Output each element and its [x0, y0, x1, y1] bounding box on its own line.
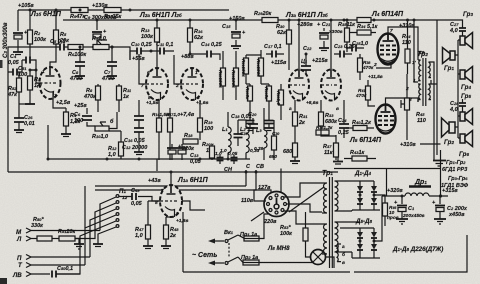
label 127в [258, 185, 271, 191]
capacitor C9 300x300в electrolytic [84, 15, 117, 50]
capacitor C3 300x300в electrolytic [13, 10, 28, 52]
resistor R46 10 пров [383, 203, 399, 226]
wire transformer to bridge2 [340, 222, 360, 258]
label Д5-Д8 [355, 218, 373, 225]
ground speaker bus [433, 161, 446, 167]
capacitor C29 [240, 118, 255, 137]
capacitor C26 0,01 [14, 100, 35, 130]
capacitor C6 100 [74, 108, 95, 126]
wire bridge2 output [374, 196, 382, 241]
resistor R53 100к [280, 212, 311, 257]
resistor R40 1,2к [346, 120, 374, 131]
ground after R51 [74, 244, 84, 249]
resistor R24 150к [255, 50, 264, 84]
label tube Л1б 6Н1П [30, 11, 62, 18]
resistor R23 180к vertical tall [230, 51, 239, 100]
switch link dashed [228, 243, 230, 258]
capacitor C13б 0,05 electrolytic [167, 144, 202, 165]
node rail dots [47, 9, 376, 174]
capacitor C1 200х450в [394, 196, 425, 224]
input jack Т [18, 262, 85, 269]
label С [246, 164, 251, 170]
resistor R6 100к [68, 45, 93, 59]
resistor R1 1,0 [28, 69, 42, 105]
capacitor C28 4,0 [449, 99, 466, 113]
choke Др1 [405, 179, 431, 196]
capacitor C16 0,05 [124, 100, 146, 144]
capacitor C5 0,1 [50, 39, 68, 51]
wire Л5 anode to Тр2 bottom [386, 98, 419, 105]
resistor R48 2к [161, 217, 179, 249]
wire choke out [429, 188, 458, 198]
resistor R38 470к [358, 54, 375, 80]
lamp Л8 МН8 [267, 245, 334, 268]
voltage selector [264, 192, 289, 217]
label Д1-Д8 Д226(Д7Ж) [392, 246, 443, 253]
label tube Л2а 6Н1П Л2б [139, 12, 182, 19]
capacitor C17 0,1 [264, 44, 284, 58]
label +55в [132, 56, 145, 62]
label +150в [229, 16, 245, 22]
capacitor C2 200х450в [432, 196, 468, 224]
wire П1 to ЛВ row [56, 221, 116, 274]
label 220в [263, 219, 277, 225]
resistor R20 10к [202, 142, 216, 160]
resistor R2 100к [28, 28, 48, 58]
resistor R44 110 [402, 19, 411, 75]
label Гр6 [459, 151, 469, 158]
wire anode Л1б to rail [50, 52, 56, 67]
resistor R28 1,0 [275, 84, 284, 120]
ground under C3 [13, 52, 23, 55]
capacitor C14 0,25 [190, 42, 223, 60]
wire speakers inner bus [455, 40, 460, 138]
resistor R30 62к [276, 19, 292, 71]
resistor R35 11к [338, 19, 356, 53]
label tube Л5 6П14П [349, 137, 382, 144]
label +7,4в [180, 112, 195, 118]
resistor R51 20к [58, 229, 79, 244]
input jack ЛВ [12, 272, 50, 280]
resistor R19 100 [198, 100, 214, 140]
capacitor C21 electrolytic [317, 22, 343, 51]
wire anodes Л3 to rail [298, 19, 333, 70]
wire bridge1 output [374, 188, 403, 203]
wire Л4 anode to Тр2 [388, 27, 418, 60]
speaker Гр1 [443, 48, 456, 73]
capacitor C7 4700 [101, 46, 117, 83]
resistor R9 47к [70, 8, 88, 21]
resistor R8 470к [83, 84, 101, 112]
capacitor C18 0,01 [231, 114, 252, 146]
wire top rail B (+310v) [63, 19, 437, 21]
wire bridge1 plus to choke [382, 195, 405, 198]
switch Вк1 pole 1 [208, 230, 244, 244]
label Гр5 [461, 93, 471, 100]
wire grid Л2а [139, 54, 146, 84]
wire cathode Л1б down [53, 92, 71, 108]
ground under C26 R1 [14, 104, 35, 133]
wire selector to Тр1 top [283, 183, 322, 197]
label +25в [74, 103, 87, 109]
resistor R34 5,1к [350, 24, 379, 35]
resistor R50 330к [31, 217, 59, 241]
capacitor C27 4,0 [449, 22, 466, 36]
wire band switch feedback 1 [95, 170, 246, 186]
resistor R47 1,0 [135, 201, 160, 249]
label +310в feed [400, 142, 416, 148]
capacitor C22 [301, 46, 312, 74]
resistor R29 20к [254, 11, 278, 23]
wire B+ down right [420, 144, 441, 196]
capacitor C12 20000 [122, 126, 147, 155]
wire П1 to П row [90, 209, 116, 257]
capacitor C4 0,05 [8, 54, 38, 72]
label +115в [271, 60, 287, 66]
label +130в [92, 3, 108, 9]
wire PSU bottom rail [243, 235, 467, 272]
label tube Л4 6П14П [371, 11, 404, 18]
resistor R16 62к [188, 19, 205, 55]
label +43в [148, 178, 161, 184]
resistor R27 680 [269, 120, 277, 160]
label Гр1-Гр2 6ГД1 РР3 [442, 160, 467, 173]
fuse Пр1а [240, 214, 268, 241]
resistor R41 470к [355, 80, 375, 106]
label СВ [256, 164, 264, 170]
capacitor band filter 0,05 [228, 151, 238, 164]
speaker Гр5 [460, 109, 473, 125]
capacitor C12б electrolytic [177, 144, 187, 160]
wire selector arm diagonal [251, 169, 324, 222]
wire selector tap 127в [254, 190, 271, 201]
wire feedback left loop [8, 47, 56, 172]
wire grid Л2б [174, 55, 181, 84]
capacitor C10 0,25 [130, 42, 153, 60]
tube Л4 pentode [373, 28, 399, 68]
switch П1 contacts [116, 188, 128, 227]
label 110в [241, 198, 254, 204]
label Гр3 [463, 11, 473, 18]
wire rail to Тр2 centre tap [413, 19, 419, 83]
capacitor C30 [265, 118, 280, 137]
speaker Гр3 [460, 33, 473, 49]
resistor R21 150к [240, 55, 249, 84]
wire left return [183, 212, 243, 272]
wire pole vertical [84, 186, 86, 228]
label +1,8в [176, 218, 188, 224]
resistor R31 2к [293, 100, 309, 140]
resistor R52 47к [7, 72, 22, 100]
wire speaker bus right [437, 20, 463, 155]
speaker Гр6 [460, 131, 473, 147]
resistor R17 1,0 [166, 108, 180, 160]
capacitor band filter 1,0 [215, 151, 224, 164]
inductor L2 [240, 126, 260, 159]
capacitor C51 100 [8, 60, 27, 78]
capacitor C50 0,1 [52, 266, 80, 278]
inductor L3 [254, 108, 267, 160]
wire phase splitter bus [246, 55, 269, 118]
capacitor C15 electrolytic 300х300в [222, 19, 246, 49]
resistor R26 3к [263, 84, 272, 112]
resistor R33 680к [319, 100, 339, 130]
wire Л1а anode to mid rail [170, 171, 173, 186]
label ~ Сеть [192, 252, 217, 259]
resistor R43 1к [344, 150, 376, 161]
potentiometer R45 110 [401, 74, 426, 140]
capacitor C13 0,1 [150, 42, 175, 55]
wire grid Л1б left [30, 70, 41, 83]
label tube Л3а 6Н1П Л3б [285, 12, 328, 19]
label +105в [18, 3, 34, 9]
tube Л1б triode [36, 67, 61, 99]
resistor R11 1к [117, 84, 132, 112]
resistor R25 3к [244, 84, 253, 112]
diode bridge Д5-Д8 [340, 228, 380, 258]
input jack Л [16, 236, 37, 243]
label +8,6в [306, 100, 318, 106]
label C3 rotated [3, 22, 9, 58]
resistor R15 35к [104, 8, 123, 21]
resistor R14 1,5м [152, 100, 170, 160]
transformer Тр1 [322, 170, 346, 268]
label +215в [312, 58, 328, 64]
label +310в [399, 23, 415, 29]
resistor R32 680 [283, 140, 300, 164]
speaker Гр2 [442, 118, 456, 146]
label +1,5в [146, 100, 158, 106]
tube Л3б triode bold [321, 70, 341, 113]
label tube Л1а 6Н1П [177, 177, 209, 184]
label +280в [297, 22, 313, 28]
wire П1 to М row [100, 197, 116, 231]
label +1,6в [196, 100, 208, 106]
resistor R42 on rail [357, 18, 371, 23]
tube Л5 pentode [376, 105, 396, 134]
node rail A drop x30 [29, 9, 32, 29]
wire П1 to Т row [85, 215, 116, 265]
wire speaker bus left [431, 62, 437, 160]
capacitor C8 4700 [69, 46, 85, 83]
switch Вк1 pole 2 [208, 257, 243, 266]
resistor R22 150к vertical tall [217, 51, 226, 100]
wire selector to Тр1 low [283, 211, 322, 224]
capacitor C23 0,25 [334, 44, 356, 58]
capacitor C25 1,0 [346, 41, 368, 52]
tube Л2б triode [175, 68, 203, 101]
wire PSU top bus [334, 169, 441, 197]
resistor R5 20к [54, 9, 71, 53]
input jack М [16, 228, 100, 236]
tube Л1а triode [155, 185, 182, 217]
speaker Гр4 [460, 67, 473, 92]
tube Л2а triode [141, 68, 168, 101]
inductor L1 [220, 112, 231, 159]
label Гр3-Гр6 1ГД1 ВЭФ [441, 176, 469, 189]
resistor R18 220к [181, 133, 198, 152]
resistor R12 1,0 [108, 131, 124, 159]
wire П1 to Л row [75, 203, 116, 239]
label +88в [181, 54, 194, 60]
input jack П [17, 255, 90, 263]
resistor R13 100к [141, 19, 160, 69]
resistor R4 1,2к [61, 108, 82, 137]
wire mid ground rail [8, 171, 338, 173]
resistor R36 1,2к [316, 125, 333, 135]
wire Л1а output right [182, 201, 205, 210]
label +11,5в [368, 74, 383, 80]
capacitor C49 0,05 [119, 188, 160, 207]
potentiometer R10 1,0 [92, 112, 117, 140]
fuse Пр2а [241, 255, 322, 265]
wire top rail A (+105v) [18, 9, 229, 11]
label Д1-Д4 [354, 170, 372, 177]
label Ц1 [301, 59, 308, 65]
wire band switch feedback 2 [95, 170, 256, 190]
tube Л3а triode bold [289, 70, 309, 113]
resistor R37 11к [321, 130, 339, 160]
diode bridge Д1-Д4 [340, 181, 380, 211]
label СН [224, 167, 233, 173]
capacitor C24 0,25 [338, 100, 350, 138]
capacitor C20 [248, 112, 258, 134]
wire selector to Тр1 mid [286, 204, 322, 212]
wire Л4 cathode [376, 63, 391, 68]
wire П1 contact 6 to ground [93, 227, 116, 247]
ground filament centre tap [333, 157, 343, 164]
wire bottom row stage2 [48, 125, 250, 171]
potentiometer R7 1,0 [92, 36, 130, 60]
transformer Тр2 [405, 50, 431, 106]
